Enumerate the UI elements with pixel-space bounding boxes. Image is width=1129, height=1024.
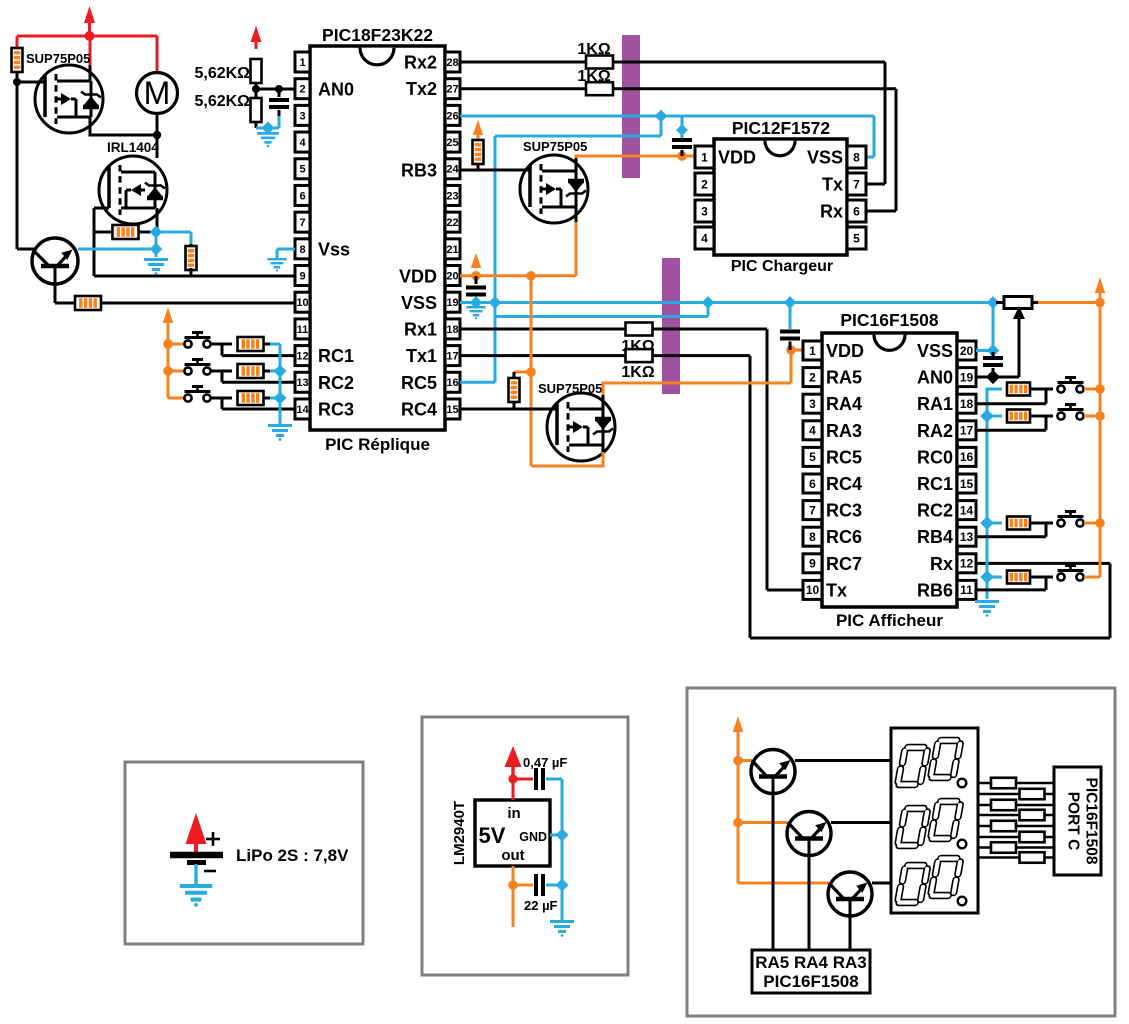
wire Q2 emitter <box>738 821 788 824</box>
svg-text:RA3: RA3 <box>826 421 862 441</box>
box LM2940 outline <box>422 717 628 975</box>
wire segment 2 <box>978 793 1054 796</box>
wire button RC3 supply <box>168 397 184 400</box>
svg-text:RA2: RA2 <box>917 421 953 441</box>
resistor 5,62K upper <box>251 59 262 83</box>
resistor segment 7 <box>991 842 1016 853</box>
orange VDD branch down <box>530 276 533 466</box>
resistor 1K Tx2 <box>586 82 613 95</box>
ground VSS pin19 <box>466 307 485 319</box>
svg-text:14: 14 <box>960 503 974 517</box>
svg-text:Tx: Tx <box>822 175 843 195</box>
wire Q1 base <box>772 777 775 951</box>
wire M2 drain up orange <box>575 158 578 171</box>
svg-text:VDD: VDD <box>826 341 864 361</box>
svg-text:Rx1: Rx1 <box>404 320 437 340</box>
VBAT arrow AN0 divider <box>251 26 262 42</box>
PIC16F1508 pin 10 <box>803 580 822 599</box>
svg-text:5: 5 <box>853 231 860 245</box>
wire segment 4 <box>978 814 1054 817</box>
svg-text:1: 1 <box>701 150 708 164</box>
MOSFET SUP75P05 M2 <box>520 155 588 223</box>
svg-text:1KΩ: 1KΩ <box>621 364 654 381</box>
wire segment 8 <box>978 856 1054 859</box>
wire VSS pin19 blue <box>460 301 993 304</box>
display 3x 7-segment body <box>891 728 978 913</box>
IC PIC18F23K22 body <box>310 46 445 430</box>
PIC12F1572 pin 8 <box>847 146 866 168</box>
svg-text:VDD: VDD <box>718 148 756 168</box>
capacitor PIC16 AN0 <box>992 352 995 356</box>
PIC18F23K22 pin 12 <box>295 346 310 366</box>
junction PIC16 VDD <box>786 345 796 355</box>
junction VSS cap <box>470 296 483 309</box>
wire segment 7 <box>978 846 1054 849</box>
wire VSS pin20 blue <box>976 349 993 352</box>
capacitor PIC12 VDD <box>681 116 684 138</box>
wire Q1 collector <box>795 759 891 762</box>
ground right buttons <box>975 602 999 617</box>
wire button RB4 orange <box>1084 522 1100 525</box>
potentiometer battery sense <box>996 301 1004 304</box>
wire orange to gate resistor <box>514 371 531 374</box>
wire RC4 gate <box>460 408 557 411</box>
wire RC1 to pin 12 <box>221 344 224 356</box>
junction rail RA1 <box>1095 384 1105 394</box>
wire Q2 base <box>808 839 811 951</box>
PIC16F1508 pin 9 <box>803 554 822 573</box>
ground LiPo <box>180 886 212 907</box>
resistor segment 8 <box>1020 852 1045 863</box>
svg-text:RC1: RC1 <box>318 346 354 366</box>
VDD arrow right rail <box>1095 277 1105 293</box>
svg-text:VSS: VSS <box>401 293 437 313</box>
svg-text:11: 11 <box>297 324 309 336</box>
junction blue RA2 <box>980 409 994 423</box>
PIC18F23K22 pin 1 <box>295 52 310 72</box>
svg-text:Rx: Rx <box>930 554 953 574</box>
capacitor 22uF <box>534 874 538 896</box>
wire segment 6 <box>978 836 1054 839</box>
wire cap047 right blue <box>546 778 562 781</box>
resistor 1K Rx1 <box>626 323 653 336</box>
svg-text:5V: 5V <box>479 823 506 848</box>
transistor Q2 display <box>787 812 831 856</box>
junction reg gnd <box>555 828 568 841</box>
battery LiPo positive arrow <box>186 813 207 844</box>
resistor RB6 (striped) <box>1007 571 1030 584</box>
PIC16F1508 pin 3 <box>803 394 822 413</box>
wire AN0 wiper <box>976 376 1019 379</box>
svg-text:PIC16F1508: PIC16F1508 <box>763 972 858 991</box>
svg-text:in: in <box>507 805 520 822</box>
regulator LM2940 body <box>475 800 550 866</box>
svg-text:RC6: RC6 <box>826 527 862 547</box>
svg-text:1: 1 <box>299 57 305 69</box>
svg-text:VDD: VDD <box>399 266 437 286</box>
resistor segment 2 <box>1020 789 1045 800</box>
svg-text:RC2: RC2 <box>917 501 953 521</box>
capacitor PIC18 VDD <box>475 276 478 284</box>
PIC18F23K22 pin 23 <box>445 185 460 205</box>
wire button RC2 supply <box>168 370 184 373</box>
svg-text:13: 13 <box>960 530 974 544</box>
7-seg digit group 1 left <box>898 748 928 785</box>
resistor 5,62K lower <box>251 98 262 122</box>
PIC18F23K22 pin 2 <box>295 79 310 99</box>
svg-text:13: 13 <box>296 377 308 389</box>
wire Q3 base <box>849 899 852 950</box>
svg-text:18: 18 <box>960 397 974 411</box>
svg-text:4: 4 <box>701 231 708 245</box>
junction VSS pin20 <box>987 344 1000 357</box>
PIC12F1572 pin 4 <box>695 227 714 249</box>
svg-text:RB6: RB6 <box>917 580 953 600</box>
wire Q3 collector <box>872 882 891 885</box>
svg-text:10: 10 <box>806 583 820 597</box>
7-seg dp 2 <box>958 840 967 849</box>
ground AN0 divider <box>257 133 279 147</box>
wire IRL gate lead <box>94 207 109 210</box>
svg-text:7: 7 <box>299 217 305 229</box>
svg-text:14: 14 <box>296 404 309 416</box>
resistor BJT base (striped) <box>75 296 101 310</box>
wire button RC1 to resistor <box>211 343 232 346</box>
svg-text:3: 3 <box>809 397 816 411</box>
7-seg dp 3 <box>958 897 967 906</box>
MOSFET IRL1404 <box>99 156 167 224</box>
svg-text:16: 16 <box>446 377 458 389</box>
wire RB4 to pin <box>1045 523 1048 537</box>
junction AN0 a <box>252 85 260 93</box>
wire orange to PIC16 VDD <box>790 350 793 383</box>
svg-text:Tx2: Tx2 <box>406 79 437 99</box>
resistor RC1 (striped) <box>238 337 264 351</box>
svg-text:21: 21 <box>446 244 458 256</box>
PIC18F23K22 pin 16 <box>445 372 460 392</box>
orange bus left buttons <box>167 344 170 398</box>
transistor Q3 display <box>828 872 872 916</box>
push button RC3 <box>184 394 191 401</box>
VDD arrow pin20 <box>471 253 481 268</box>
PIC16F1508 pin 15 <box>957 474 976 493</box>
PIC18F23K22 pin 26 <box>445 105 460 125</box>
svg-text:18: 18 <box>446 324 458 336</box>
ground IRL gate node <box>144 260 168 275</box>
svg-text:PIC Chargeur: PIC Chargeur <box>731 258 833 275</box>
wire button RA2 orange <box>1084 415 1100 418</box>
wire button RC3 to resistor <box>211 397 232 400</box>
svg-text:6: 6 <box>299 190 305 202</box>
svg-text:5,62KΩ: 5,62KΩ <box>194 65 250 82</box>
svg-text:RA5: RA5 <box>826 368 862 388</box>
ground left buttons <box>268 426 292 441</box>
junction VSS jog <box>702 296 715 309</box>
junction AN0 gnd <box>261 121 274 134</box>
svg-text:11: 11 <box>960 583 973 597</box>
svg-text:RC0: RC0 <box>917 447 953 467</box>
resistor RC3 (striped) <box>238 391 264 405</box>
svg-text:PIC12F1572: PIC12F1572 <box>732 118 831 138</box>
7-seg digit group 3 right <box>931 859 961 896</box>
IC PIC12F1572 body <box>714 139 847 255</box>
wire Vss pin8 <box>277 248 295 251</box>
wire AN0 cap to ground blue <box>278 116 281 128</box>
wire segment 5 <box>978 825 1054 828</box>
capacitor PIC16 VDD <box>789 303 792 330</box>
PIC18F23K22 pin 5 <box>295 159 310 179</box>
junction VDD pin20 <box>471 271 481 281</box>
PIC18F23K22 pin 22 <box>445 212 460 232</box>
wire VDD pin20 orange <box>460 274 576 277</box>
svg-text:1KΩ: 1KΩ <box>577 68 610 85</box>
wire RC3 to pin 14 <box>221 398 224 409</box>
PIC18F23K22 pin 9 <box>295 266 310 286</box>
PIC12F1572 pin 3 <box>695 200 714 222</box>
svg-text:17: 17 <box>960 424 974 438</box>
PIC16F1508 pin 2 <box>803 368 822 387</box>
MOSFET SUP75P05 M3 <box>547 393 615 461</box>
wire segment 1 <box>978 782 1054 785</box>
PIC16F1508 pin 11 <box>957 580 976 599</box>
junction pin26/RC5 <box>655 110 668 123</box>
svg-text:20: 20 <box>960 344 974 358</box>
svg-text:3: 3 <box>701 204 708 218</box>
junction orange RC1 <box>163 339 173 349</box>
junction VSS rc5 cross <box>489 296 502 309</box>
PIC18F23K22 pin 21 <box>445 239 460 259</box>
svg-text:1: 1 <box>809 344 816 358</box>
resistor RA1 (striped) <box>1007 383 1030 396</box>
IC PIC18F23K22 notch <box>360 48 394 65</box>
battery LiPo plates <box>170 852 223 859</box>
wire M1 drain top <box>89 65 92 81</box>
VBAT red rail <box>17 35 157 38</box>
wire Q3 emitter <box>738 882 829 885</box>
resistor RC2 (striped) <box>238 364 264 378</box>
junction cap22 gnd <box>555 878 568 891</box>
PIC18F23K22 pin 6 <box>295 185 310 205</box>
wire RA1 to pin <box>1045 389 1048 404</box>
svg-text:20: 20 <box>446 270 458 282</box>
wire M1 source to motor node <box>89 117 92 135</box>
svg-text:Vss: Vss <box>318 240 350 260</box>
wire segment 3 <box>978 804 1054 807</box>
wire RC2 blue <box>270 370 280 373</box>
IC PIC12F1572 notch <box>765 141 795 156</box>
PIC16F1508 pin 1 <box>803 341 822 360</box>
capacitor AN0 filter <box>278 89 281 97</box>
wire RC5 net blue <box>460 381 495 384</box>
motor M <box>137 73 178 114</box>
svg-text:2: 2 <box>299 84 305 96</box>
svg-text:Tx1: Tx1 <box>406 346 437 366</box>
junction M2 VDD cap <box>677 151 687 161</box>
svg-text:28: 28 <box>446 57 458 69</box>
VBAT power arrow <box>84 6 95 23</box>
junction blue gate node <box>150 226 163 239</box>
svg-text:7: 7 <box>853 177 860 191</box>
battery minus sign <box>204 870 216 873</box>
wire Q2 collector <box>831 821 891 824</box>
wire motor to IRL drain <box>156 113 159 158</box>
resistor segment 5 <box>991 821 1016 832</box>
wire button RC1 supply <box>168 343 184 346</box>
svg-text:8: 8 <box>299 244 305 256</box>
svg-text:4: 4 <box>809 424 816 438</box>
svg-text:RC1: RC1 <box>917 474 953 494</box>
wire BJT base lead <box>17 248 34 251</box>
wire Tx1 net <box>460 354 628 357</box>
resistor RB3 pull-up (striped) <box>473 140 484 164</box>
wire Rx2 net <box>460 61 586 64</box>
junction blue RB4 <box>980 516 994 530</box>
svg-text:Rx2: Rx2 <box>404 53 437 73</box>
PIC16F1508 pin 12 <box>957 554 976 573</box>
PIC18F23K22 pin 11 <box>295 319 310 339</box>
ground regulator <box>550 922 574 937</box>
PIC16F1508 pin 19 <box>957 368 976 387</box>
svg-text:6: 6 <box>853 204 860 218</box>
wire M3 source orange <box>602 445 605 452</box>
wire RB6 to pin <box>1045 577 1048 590</box>
7-seg digit group 2 right <box>931 802 961 839</box>
svg-text:9: 9 <box>299 270 305 282</box>
wire AN0 <box>256 88 295 91</box>
blue bus left buttons <box>279 344 282 424</box>
svg-text:PIC Afficheur: PIC Afficheur <box>836 611 943 630</box>
resistor RA2 (striped) <box>1007 410 1030 423</box>
PIC16F1508 pin 20 <box>957 341 976 360</box>
svg-text:0,47 µF: 0,47 µF <box>523 755 567 770</box>
PIC18F23K22 pin 19 <box>445 292 460 312</box>
blue rail right buttons <box>987 389 1002 599</box>
wire pot to VDD rail orange <box>1038 301 1100 304</box>
svg-text:RB3: RB3 <box>401 160 437 180</box>
push button RA1 <box>1057 385 1064 392</box>
svg-text:2: 2 <box>809 370 816 384</box>
wire battery negative <box>194 864 197 884</box>
svg-text:out: out <box>501 847 524 864</box>
PIC18F23K22 pin 7 <box>295 212 310 232</box>
ground Vss pin8 <box>267 259 286 271</box>
PIC16F1508 pin 13 <box>957 527 976 546</box>
PIC16F1508 pin 5 <box>803 447 822 466</box>
PIC18F23K22 pin 14 <box>295 399 310 419</box>
wire cap047 left <box>513 778 533 781</box>
svg-text:RB4: RB4 <box>917 527 953 547</box>
svg-text:12: 12 <box>960 557 974 571</box>
junction VDD branch <box>526 271 536 281</box>
blue node IRL gate <box>149 225 151 232</box>
PIC18F23K22 pin 3 <box>295 105 310 125</box>
PIC18F23K22 pin 13 <box>295 372 310 392</box>
svg-text:5,62KΩ: 5,62KΩ <box>194 93 250 110</box>
svg-text:3: 3 <box>299 110 305 122</box>
wire RC1 blue <box>270 343 280 346</box>
junction orange RC4 gate-res <box>526 367 536 377</box>
PIC16F1508 pin 16 <box>957 447 976 466</box>
PIC12F1572 pin 5 <box>847 227 866 249</box>
PIC18F23K22 pin 10 <box>295 292 310 312</box>
PIC18F23K22 pin 15 <box>445 399 460 419</box>
junction VBAT rail <box>85 31 95 41</box>
svg-text:RC5: RC5 <box>826 447 862 467</box>
svg-text:PIC16F1508: PIC16F1508 <box>840 310 939 330</box>
resistor 1K Rx2 <box>586 56 613 69</box>
7-seg digit group 1 right <box>931 741 961 778</box>
svg-text:RA5 RA4 RA3: RA5 RA4 RA3 <box>755 953 866 972</box>
wire RA2 to pin <box>1045 416 1048 430</box>
transistor Q1 display <box>751 750 795 794</box>
resistor segment 6 <box>1020 832 1045 843</box>
wire Tx2 net <box>460 87 586 90</box>
svg-text:M: M <box>144 75 171 111</box>
svg-text:16: 16 <box>960 450 974 464</box>
VDD arrow display <box>733 716 743 732</box>
junction orange RC2 <box>163 366 173 376</box>
svg-text:5: 5 <box>299 164 305 176</box>
junction rail RB4 <box>1095 518 1105 528</box>
svg-text:23: 23 <box>446 190 458 202</box>
svg-text:8: 8 <box>809 530 816 544</box>
junction AN0 b <box>275 85 283 93</box>
node gate Q-SUP1 <box>13 78 21 86</box>
wire button RC2 to resistor <box>211 370 232 373</box>
wire reg GND blue <box>550 834 562 837</box>
resistor SUP75P05 gate pull-up <box>16 48 18 60</box>
wire cap22 right blue <box>546 884 562 887</box>
wire pin9 net <box>94 275 295 278</box>
junction motor node <box>153 131 161 139</box>
junction blue RC2 <box>273 364 286 377</box>
IC PIC16F1508 body <box>822 333 957 607</box>
resistor 1K Tx1 <box>626 349 653 362</box>
junction rail pot <box>1095 298 1105 308</box>
wire reg in red <box>512 779 515 800</box>
junction AN0 cap <box>986 370 1000 384</box>
svg-text:GND: GND <box>519 830 547 844</box>
PIC18F23K22 pin 17 <box>445 346 460 366</box>
wire pin26 net blue <box>460 115 874 118</box>
wire IRL source-gate blue <box>150 231 191 234</box>
svg-text:VSS: VSS <box>807 148 843 168</box>
svg-text:15: 15 <box>446 404 458 416</box>
box display outline <box>687 688 1115 1016</box>
svg-text:RC3: RC3 <box>318 400 354 420</box>
push button RC2 <box>184 367 191 374</box>
push button RB6 <box>1057 573 1064 580</box>
box PORT C <box>1054 767 1101 875</box>
svg-text:RC5: RC5 <box>401 373 437 393</box>
PIC18F23K22 pin 18 <box>445 319 460 339</box>
PIC16F1508 pin 6 <box>803 474 822 493</box>
svg-text:SUP75P05: SUP75P05 <box>26 51 90 66</box>
wire button RB6 orange <box>1084 576 1100 579</box>
wire reg out orange <box>512 866 515 927</box>
PIC18F23K22 pin 8 <box>295 239 310 259</box>
wire resistor to node <box>16 72 19 249</box>
7-seg digit group 3 left <box>898 866 928 903</box>
resistor pulldown (striped vertical) <box>190 244 193 248</box>
svg-text:LiPo 2S : 7,8V: LiPo 2S : 7,8V <box>236 846 349 865</box>
svg-text:RC4: RC4 <box>401 400 437 420</box>
junction blue RB6 <box>980 570 994 584</box>
wire BJT collector blue <box>78 248 156 251</box>
wire M3 drain up orange <box>602 395 605 409</box>
PIC18F23K22 pin 28 <box>445 52 460 72</box>
junction reg in <box>508 774 517 783</box>
